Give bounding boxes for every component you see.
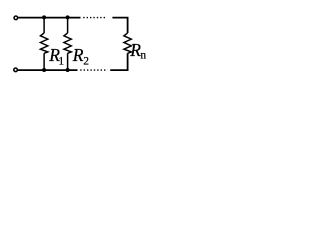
- node junction bottom R2: [66, 68, 70, 72]
- resistor R2: [64, 17, 71, 71]
- node junction bottom R1: [42, 68, 46, 72]
- svg-text:R: R: [129, 40, 141, 60]
- wire bottom rail dotted: [80, 69, 107, 71]
- top input terminal: [14, 16, 18, 20]
- resistor R1: [40, 17, 47, 71]
- wire top rail solid right + corner down: [112, 18, 127, 33]
- wire top rail dotted: [83, 17, 107, 19]
- node junction top R2: [66, 15, 70, 19]
- svg-text:R: R: [72, 45, 84, 65]
- svg-text:n: n: [140, 50, 146, 62]
- wire bottom rail solid right + corner up: [110, 53, 127, 70]
- resistor Rn: [124, 33, 131, 53]
- wire bottom rail solid left: [18, 69, 78, 71]
- svg-text:1: 1: [58, 56, 64, 68]
- wire top rail solid left: [18, 17, 80, 19]
- bottom terminal: [14, 68, 18, 72]
- node junction top R1: [42, 15, 46, 19]
- svg-text:2: 2: [83, 56, 89, 68]
